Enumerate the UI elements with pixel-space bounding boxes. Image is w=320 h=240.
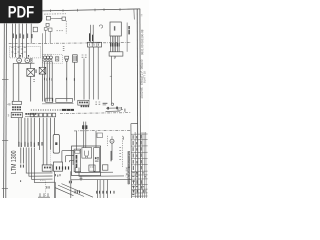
margin text 4 xyxy=(141,88,143,99)
wire number labels upper xyxy=(13,34,33,39)
connector row2 housing 5 xyxy=(48,113,52,117)
relay cup pins xyxy=(86,156,88,158)
wire w14 label xyxy=(128,26,129,34)
wire v1 lower xyxy=(20,148,22,164)
bottom box b1 marks xyxy=(90,166,93,168)
elbow wire 2 xyxy=(29,148,53,177)
pilot lamp stem xyxy=(111,136,113,139)
wire v6d xyxy=(46,118,48,165)
switch S3 marks xyxy=(82,55,87,57)
connector X9 stub xyxy=(33,27,37,32)
connector X3 underline xyxy=(25,116,37,118)
wire w9 xyxy=(92,25,94,43)
corner wire 3 xyxy=(69,160,74,162)
elbow wire 1 xyxy=(26,148,52,174)
relay K2 box xyxy=(88,42,102,47)
paper background xyxy=(0,0,149,198)
gauge P1 xyxy=(17,58,22,63)
terminal dot strip xyxy=(31,109,61,111)
switch S4 small box xyxy=(55,57,58,61)
wire v13 xyxy=(107,180,109,198)
nested corner b xyxy=(79,168,124,177)
wire v3 xyxy=(24,118,26,143)
wire w6 xyxy=(74,62,76,100)
relay coil circle xyxy=(111,103,113,105)
fuse F5 wire xyxy=(26,24,28,59)
bottom box b2 xyxy=(103,165,108,170)
label smudge xyxy=(124,109,125,112)
title block cell text marks xyxy=(133,135,144,192)
plug box P4 wide xyxy=(56,98,73,102)
terminal marks xyxy=(117,109,121,111)
lamp H3 xyxy=(43,56,46,59)
title block left edge xyxy=(130,124,133,198)
relay K3 mark xyxy=(55,142,57,145)
pilot lamp circle xyxy=(110,139,114,143)
margin text 1 xyxy=(141,30,143,44)
gauge P2 needle xyxy=(27,60,28,61)
relay K1 box xyxy=(46,16,50,20)
fuse F3 wire xyxy=(18,24,20,59)
wire xyxy=(41,74,43,102)
diagonal harness 2 xyxy=(58,185,84,196)
wire v2 xyxy=(20,118,22,143)
crane cab boundary dash-dot line upper xyxy=(9,43,131,44)
lamp H4 xyxy=(46,56,49,59)
connector X1 terminals row2 xyxy=(12,109,21,111)
relay K2 contacts xyxy=(89,44,98,46)
wire w1 xyxy=(44,62,46,102)
terminal box flange xyxy=(109,52,123,56)
wire w8 xyxy=(90,25,92,43)
sub box left vertical label xyxy=(76,155,78,168)
top border fold tick 1 xyxy=(50,9,52,12)
right margin partial line xyxy=(133,9,135,19)
connector row2 housing 2 xyxy=(35,113,39,117)
wire down from node xyxy=(18,63,20,101)
lamp sockets xyxy=(44,60,46,62)
corner wire 1 drop xyxy=(61,151,63,162)
bus rail line xyxy=(42,103,74,105)
diode block wire xyxy=(106,107,122,109)
wire v8 xyxy=(54,171,56,198)
right border inner line xyxy=(136,9,139,198)
diagonal harness 1 xyxy=(55,188,73,196)
LTM 1300 vertical text xyxy=(11,151,16,174)
dashed enclosure tick marks xyxy=(119,148,121,160)
label VERTEILER SCHIENE xyxy=(62,109,74,111)
feed wires into lower panel xyxy=(83,122,85,148)
connector row2 housing 6 xyxy=(52,113,56,117)
top border fold tick 4 xyxy=(94,9,96,12)
wire xyxy=(51,17,63,19)
diagonal harness 3 xyxy=(62,184,94,198)
top border fold tick 3 xyxy=(77,9,79,12)
harness label pair xyxy=(68,181,71,184)
wire v6b xyxy=(39,118,41,150)
wire w11 xyxy=(93,47,95,100)
drawing number vertical text xyxy=(126,167,128,178)
connector X3 terminals xyxy=(25,113,36,115)
connector row2 housing 4 xyxy=(43,113,47,117)
resistor R1 xyxy=(46,23,49,26)
bottom box b1 xyxy=(89,165,95,171)
sub box right marks xyxy=(95,157,97,159)
sub box middle relay xyxy=(82,148,92,159)
plug box P3 xyxy=(46,98,53,102)
wire v12 xyxy=(103,180,105,198)
terminal box bottom B xyxy=(54,162,63,171)
wire v2 lower xyxy=(23,148,25,164)
drawing sheet interior tint xyxy=(4,9,141,198)
buzzer B1 xyxy=(65,56,69,59)
terminal box A marks xyxy=(44,167,46,169)
connector X5 pins xyxy=(74,56,76,61)
small box M8 xyxy=(97,133,102,138)
pilot lamp wire xyxy=(111,143,113,160)
connector row2 housing 1 xyxy=(30,113,34,117)
gauge P2 xyxy=(25,58,30,63)
branch wire vertical xyxy=(54,182,56,198)
corner wire 1 xyxy=(62,150,74,152)
fuse F4 wire xyxy=(22,24,24,58)
wire xyxy=(49,32,51,44)
contactor pair dark xyxy=(82,125,84,129)
wire stub under badge xyxy=(30,24,32,44)
wire xyxy=(106,110,121,112)
bottom marks group 2 xyxy=(96,191,114,194)
wire v7 xyxy=(72,151,74,166)
wire v10 xyxy=(97,180,99,198)
label text smudge xyxy=(103,103,108,104)
schematic title underlay xyxy=(127,151,130,184)
tick mark xyxy=(20,180,21,182)
lamp H5 xyxy=(49,56,52,59)
top border line xyxy=(43,9,141,11)
ground bar ticks xyxy=(38,193,50,197)
wire w14 xyxy=(126,23,128,52)
wire w10 xyxy=(88,47,90,100)
wire stub xyxy=(30,63,32,68)
corner wire 3 drop xyxy=(68,161,70,162)
harness tick pair xyxy=(45,186,48,188)
boundary dash-dot line middle xyxy=(60,112,131,115)
dash row mid top xyxy=(57,30,63,32)
wire xyxy=(41,33,43,67)
tee wire below panel xyxy=(80,176,83,181)
sub box left header xyxy=(75,150,80,153)
dotted stub xyxy=(40,180,45,182)
connector row2 housing 3 xyxy=(39,113,43,117)
left border inner line xyxy=(5,24,8,199)
dashed enclosure left edge xyxy=(107,136,109,146)
left border outer line xyxy=(3,24,6,199)
title block column a xyxy=(134,132,137,198)
schematic title vertical text xyxy=(128,151,130,184)
sub box left xyxy=(74,149,81,172)
wire w4 xyxy=(51,62,53,102)
terminal box inner mark xyxy=(114,26,115,30)
wire flag a xyxy=(20,55,21,57)
connector X1 housing xyxy=(12,101,21,104)
wire label 15 xyxy=(89,33,90,41)
wire w7 xyxy=(83,59,85,100)
connector X6 terminals xyxy=(79,102,88,104)
wire label 30 xyxy=(92,35,93,41)
switch S1 cluster xyxy=(44,28,47,31)
wire v11 xyxy=(99,180,101,198)
PDF badge xyxy=(0,0,42,23)
gauge P1 needle xyxy=(19,60,20,61)
lower panel outer box xyxy=(72,146,101,176)
wire v2 end label xyxy=(23,165,24,168)
short dashed line top xyxy=(44,13,66,15)
wire bus drop left xyxy=(12,63,14,101)
tick column xyxy=(63,46,65,50)
fuse F1 wire xyxy=(11,24,13,58)
wire w5 xyxy=(66,61,68,101)
dashed group frame xyxy=(43,55,63,64)
wire v4 xyxy=(27,118,29,143)
title block column b xyxy=(141,132,144,198)
top border fold tick 2 xyxy=(62,9,64,12)
wire tick xyxy=(110,75,112,77)
wire v6 xyxy=(33,118,35,143)
label 3 xyxy=(8,114,9,116)
digit smudges xyxy=(56,166,69,169)
mark right of box xyxy=(33,80,35,82)
connector X2 housing xyxy=(11,112,22,117)
elbow end labels xyxy=(54,174,57,176)
title block column d xyxy=(145,132,147,198)
bottom marks group 1 xyxy=(75,190,80,193)
wire v5 xyxy=(30,118,32,143)
switch S4 marks xyxy=(56,58,58,60)
corner wire 2 drop xyxy=(65,156,67,162)
lamp H2 crossed box xyxy=(39,67,46,74)
elbow wire 4 xyxy=(34,148,55,183)
title block column c xyxy=(143,132,146,198)
mark xyxy=(123,137,125,140)
relay K3 tall box xyxy=(53,135,59,154)
wire w3 xyxy=(49,62,51,102)
margin mark xyxy=(141,14,143,16)
wire labels mid xyxy=(44,78,75,81)
connector X2 terminals xyxy=(12,114,21,116)
diode V1 xyxy=(62,17,66,20)
wire v6c xyxy=(42,118,44,165)
relay cup symbol xyxy=(84,151,88,157)
wire v6f xyxy=(53,118,55,135)
wire w13 xyxy=(111,56,113,103)
margin text 3b xyxy=(144,71,146,82)
wire v1 end label xyxy=(20,165,21,168)
terminal box body xyxy=(110,22,121,36)
wire flag b xyxy=(28,55,29,57)
buzzer B1 circle xyxy=(66,59,68,61)
left border fold tick 2 xyxy=(2,140,8,142)
label 48 xyxy=(7,103,10,105)
terminal marks right of P2 xyxy=(31,58,32,60)
wire dashed drop xyxy=(65,21,67,34)
terminal box pins xyxy=(111,36,120,52)
left border fold tick 1 xyxy=(2,79,9,81)
diode block b xyxy=(116,107,118,110)
lamp H1 label xyxy=(36,69,37,73)
title block row text smudges xyxy=(132,172,146,195)
title block rows xyxy=(131,134,148,196)
dashed enclosure console xyxy=(10,46,41,58)
wire xyxy=(45,30,47,43)
wire curl xyxy=(99,25,102,28)
dotted wire xyxy=(50,150,52,173)
wire labels row xyxy=(18,142,42,147)
sub box right xyxy=(94,148,100,172)
PDF badge label xyxy=(9,6,34,17)
pin contact blobs xyxy=(110,43,120,47)
tick below flange xyxy=(114,56,115,59)
title block top edge xyxy=(131,123,138,125)
wire v6e xyxy=(50,118,52,150)
wire v9 xyxy=(70,171,72,198)
terminal marks X7 xyxy=(95,102,100,104)
terminal box bottom A xyxy=(42,165,52,171)
margin text 2 xyxy=(141,45,143,55)
elbow wire 3 xyxy=(32,148,53,180)
boundary dash-dot line lower xyxy=(74,129,131,132)
wire v1 xyxy=(18,118,20,143)
right border outer line xyxy=(139,9,142,198)
bus wire under gauges xyxy=(13,62,35,64)
connector X6 housing xyxy=(78,100,89,105)
dotted drop xyxy=(44,181,46,196)
wire xyxy=(30,76,32,101)
dashed enclosure right edge xyxy=(121,136,123,168)
fuse F2 wire xyxy=(14,24,16,58)
connector X5 housing xyxy=(73,55,78,62)
lamp top ticks xyxy=(44,53,51,55)
wire w2 xyxy=(46,62,48,102)
corner wire 2 xyxy=(66,155,74,157)
diode block xyxy=(107,107,109,110)
relay K2 dividers xyxy=(92,42,97,47)
nested corner a xyxy=(75,168,113,173)
wire w12 xyxy=(97,47,99,100)
top border fold tick 5 xyxy=(103,8,105,11)
switch S2 cluster xyxy=(49,28,52,31)
left border fold tick 3 xyxy=(2,188,8,190)
connector X1 terminals row1 xyxy=(12,106,21,108)
wire label vertical xyxy=(111,151,112,161)
long bottom wire xyxy=(71,178,132,181)
pilot lamp dot xyxy=(112,141,113,142)
top border fold tick 6 xyxy=(119,8,121,11)
lamp H1 crossed box xyxy=(27,69,35,77)
X6 lower terminal row xyxy=(81,106,90,108)
fuse tick marks xyxy=(11,48,25,54)
end hook xyxy=(121,107,123,110)
margin text 3 xyxy=(141,60,143,85)
